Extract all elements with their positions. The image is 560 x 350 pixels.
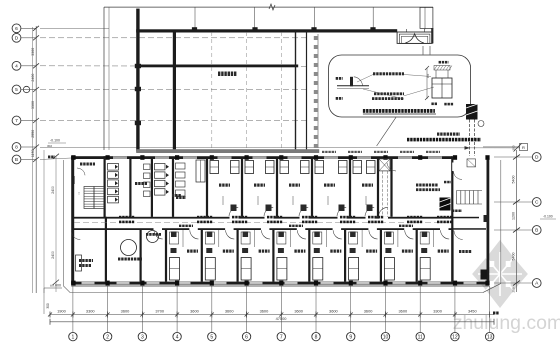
svg-text:2400: 2400 — [51, 251, 55, 259]
detail bubble rounded rect — [329, 55, 471, 117]
detail: radiator pipe plan — [337, 85, 369, 87]
svg-text:3600: 3600 — [364, 308, 373, 313]
grid bubble left 7 — [12, 116, 21, 125]
svg-text:7: 7 — [15, 118, 18, 124]
windows bottom wall — [82, 282, 95, 285]
grid axis vertical dim line left — [35, 26, 37, 293]
terrace apron outline — [64, 160, 501, 293]
grid verticals through upper building — [211, 32, 213, 149]
upper building south gray band — [136, 149, 319, 153]
svg-text:3700: 3700 — [155, 308, 164, 313]
svg-text:12: 12 — [452, 334, 458, 340]
svg-text:3300: 3300 — [31, 101, 35, 109]
canopy risers down — [422, 46, 424, 55]
svg-text:10: 10 — [383, 334, 389, 340]
dimension line bottom first row — [50, 314, 494, 316]
annotation text right of flue — [437, 133, 439, 136]
svg-text:1900: 1900 — [57, 308, 66, 313]
grid bubble right C — [532, 198, 541, 207]
east entrance + steps — [451, 156, 453, 281]
svg-text:zhulung.com: zhulung.com — [453, 312, 560, 334]
svg-text:300: 300 — [46, 303, 50, 309]
grid bubble right B — [532, 226, 541, 235]
grid bubble left 4 — [12, 61, 21, 70]
round table 2 — [147, 231, 159, 243]
corridor door gaps top rooms — [230, 217, 239, 219]
grid bubble left B — [12, 155, 21, 164]
grid bubble bottom 9 — [347, 332, 355, 340]
svg-text:2: 2 — [106, 334, 109, 340]
grid bubble left 5 — [12, 85, 21, 94]
main building bottom wall — [71, 282, 489, 285]
entrance canopy — [397, 7, 433, 43]
svg-text:3300: 3300 — [31, 48, 35, 56]
svg-text:3600: 3600 — [260, 308, 269, 313]
svg-text:6: 6 — [15, 26, 18, 32]
svg-text:2550: 2550 — [31, 130, 35, 138]
grid bubble bottom 6 — [242, 332, 250, 340]
corridor centerline dashed — [74, 222, 452, 224]
grid bubble right D — [532, 153, 541, 162]
detail caption — [363, 109, 365, 113]
grid bubble bottom 1 — [69, 332, 77, 340]
stairs — [84, 187, 104, 209]
svg-text:5400: 5400 — [512, 176, 516, 184]
svg-text:200: 200 — [512, 287, 516, 292]
bottom dorm walls — [165, 230, 167, 282]
shower room right — [481, 270, 488, 280]
grid lines horizontal from left bubbles — [40, 27, 109, 29]
svg-text:1150: 1150 — [31, 149, 35, 157]
grid bubble bottom 11 — [416, 332, 424, 340]
corridor door gaps bottom rooms — [154, 228, 163, 230]
main building right wall — [487, 156, 490, 284]
svg-text:3600: 3600 — [121, 308, 130, 313]
svg-text:B: B — [15, 157, 18, 163]
svg-text:D: D — [15, 36, 19, 42]
grid bubble bottom 10 — [381, 332, 389, 340]
grid bubble bottom 12 — [451, 332, 459, 340]
left inner dim line — [55, 156, 57, 292]
leader from bubble to plan — [377, 117, 396, 146]
upper building wall north — [136, 29, 397, 32]
svg-text:1: 1 — [72, 334, 75, 340]
grid bubble bottom 2 — [103, 332, 111, 340]
wc stalls west block — [129, 159, 131, 217]
svg-text:3300: 3300 — [433, 308, 442, 313]
svg-text:3600: 3600 — [225, 308, 234, 313]
disinfection room walls — [105, 230, 107, 282]
top dorm rooms furniture — [210, 161, 219, 174]
grid bubble bottom 3 — [138, 332, 146, 340]
svg-text:47500: 47500 — [276, 316, 288, 321]
upper building wall east double — [295, 31, 297, 150]
small labelled box far right — [520, 144, 528, 151]
boiler room right — [416, 184, 418, 187]
room label speck (plant room) — [218, 72, 220, 77]
grid bubble left 6 — [12, 24, 21, 33]
upper building outline thin — [104, 6, 433, 8]
svg-text:5: 5 — [15, 87, 18, 93]
small shaft near east top wall — [467, 159, 476, 167]
svg-text:4: 4 — [15, 64, 18, 70]
svg-text:3600: 3600 — [399, 308, 408, 313]
upper building wall west — [136, 9, 139, 152]
main building left wall — [71, 156, 74, 284]
bottom dorm furniture — [170, 258, 180, 281]
svg-text:4: 4 — [176, 334, 179, 340]
watermark zhulong logo — [472, 240, 528, 308]
room heat-exchange label — [80, 163, 82, 166]
detail: riser section — [432, 66, 452, 99]
column ticks west wall — [135, 64, 141, 68]
svg-text:7: 7 — [280, 334, 283, 340]
svg-text:3450: 3450 — [468, 308, 477, 313]
svg-text:8: 8 — [315, 334, 318, 340]
detail: leader lines — [404, 75, 431, 77]
svg-text:5400: 5400 — [512, 253, 516, 261]
svg-text:2400: 2400 — [51, 186, 55, 194]
window dim specks above top wall — [322, 151, 324, 153]
upper building wall mid vertical — [173, 30, 176, 152]
svg-text:5: 5 — [210, 334, 213, 340]
svg-text:B: B — [535, 228, 538, 234]
grid bubble bottom 4 — [173, 332, 181, 340]
grid bubble left 8 — [12, 143, 21, 152]
svg-text:6: 6 — [245, 334, 248, 340]
corridor text clusters — [119, 216, 121, 219]
svg-text:D: D — [535, 155, 539, 161]
svg-text:R: R — [522, 145, 525, 150]
svg-text:3300: 3300 — [86, 308, 95, 313]
svg-text:2400: 2400 — [31, 74, 35, 82]
thin verticals outline to north wall — [194, 7, 196, 29]
svg-text:3600: 3600 — [190, 308, 199, 313]
svg-text:↑: ↑ — [78, 191, 81, 197]
svg-text:302: 302 — [47, 144, 52, 148]
corridor north wall — [74, 217, 452, 219]
svg-text:3: 3 — [141, 334, 144, 340]
room partition — [151, 159, 153, 217]
grid bubble right A — [532, 279, 541, 288]
room 173-207 fixtures — [176, 163, 186, 169]
grid bubble bottom 13 — [485, 332, 493, 340]
top band: lobby walls — [104, 156, 106, 217]
svg-text:11: 11 — [418, 334, 423, 340]
svg-text:C: C — [535, 200, 539, 206]
corridor south wall — [74, 228, 452, 230]
svg-text:1200: 1200 — [512, 212, 516, 220]
extra small circle row 5 — [23, 86, 29, 92]
break mark — [269, 4, 275, 10]
grid right vertical dim line — [515, 150, 517, 292]
grid bubble left D — [12, 33, 21, 42]
svg-text:150: 150 — [426, 73, 430, 78]
dim 300 right of grid 13 — [493, 312, 495, 315]
grid bubble bottom 8 — [312, 332, 320, 340]
corridor extension east — [452, 217, 486, 219]
svg-text:8: 8 — [15, 145, 18, 151]
insulation hatch east wall — [314, 36, 318, 40]
svg-text:-0.100: -0.100 — [50, 139, 60, 143]
svg-text:9: 9 — [349, 334, 352, 340]
top dorm room walls — [206, 159, 208, 217]
svg-text:±0.000: ±0.000 — [50, 284, 61, 288]
svg-text:3600: 3600 — [294, 308, 303, 313]
wall segment continuing north wall to canopy — [373, 29, 397, 32]
flue hatched box — [466, 104, 478, 120]
windows top wall — [113, 156, 127, 159]
grid bubble bottom 5 — [208, 332, 216, 340]
round table 1 — [121, 240, 137, 256]
vent shaft — [379, 159, 390, 171]
arrow on axis D — [465, 146, 471, 150]
main building top wall — [71, 156, 452, 159]
wc stalls east block — [172, 159, 174, 217]
dimension line bottom total 47500 — [50, 321, 494, 323]
bottom band: meeting room — [72, 231, 81, 239]
svg-text:13: 13 — [487, 334, 493, 340]
detail: annotation text — [373, 72, 375, 75]
flue risers dashed — [469, 120, 471, 157]
wall crossing corridor at lobby — [105, 217, 107, 230]
upper building wall mid horizontal — [136, 65, 298, 68]
grid bubble bottom 7 — [277, 332, 285, 340]
columns on north wall — [192, 27, 197, 31]
column marks on main walls — [106, 155, 110, 160]
svg-text:3600: 3600 — [329, 308, 338, 313]
svg-text:-0.100: -0.100 — [543, 215, 553, 219]
